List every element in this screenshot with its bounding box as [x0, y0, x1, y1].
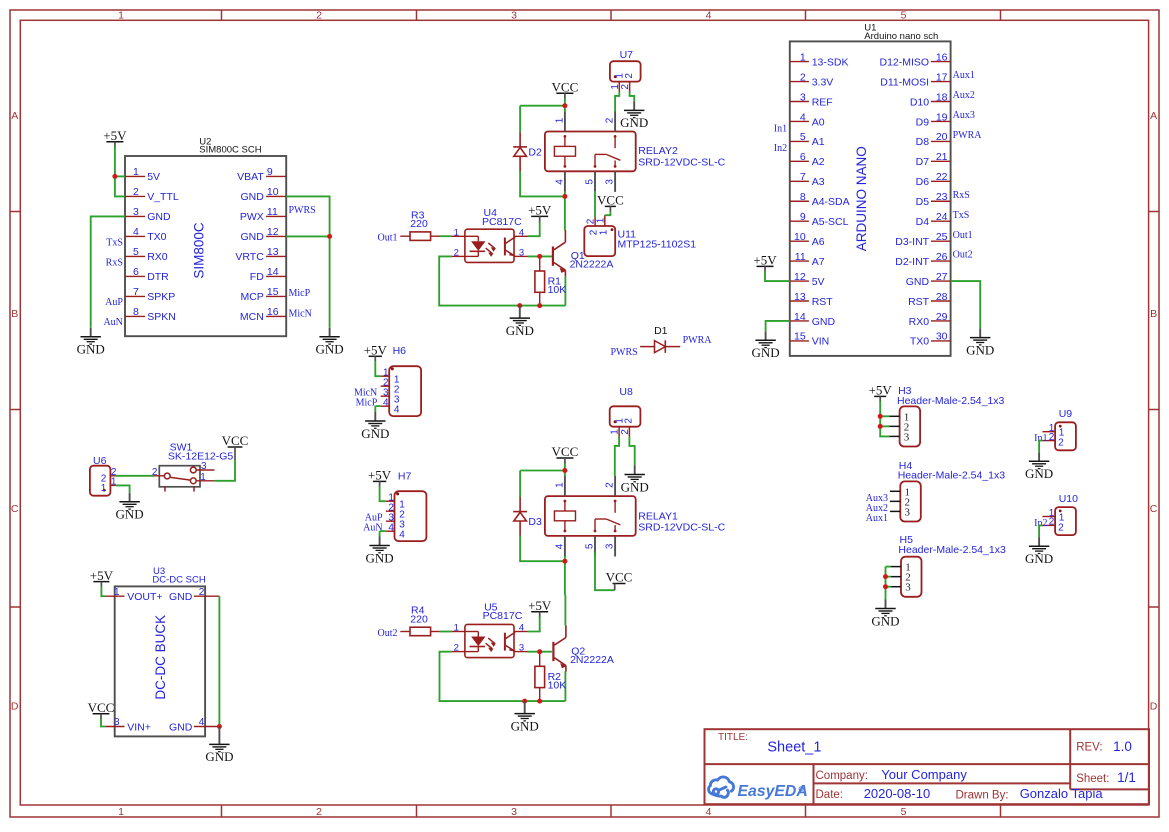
svg-text:2N2222A: 2N2222A: [570, 654, 614, 666]
svg-text:GND: GND: [316, 342, 344, 357]
svg-text:MTP125-1102S1: MTP125-1102S1: [618, 238, 697, 250]
svg-text:AuP: AuP: [105, 297, 123, 308]
svg-text:GND: GND: [205, 749, 233, 764]
svg-text:13-SDK: 13-SDK: [812, 56, 849, 68]
svg-text:In1: In1: [774, 123, 787, 134]
svg-text:1: 1: [118, 806, 124, 818]
svg-text:GND: GND: [511, 718, 539, 733]
svg-text:3: 3: [201, 461, 207, 472]
svg-text:2: 2: [199, 587, 205, 598]
svg-text:2: 2: [1058, 523, 1064, 534]
svg-text:D5: D5: [916, 196, 930, 208]
svg-text:RST: RST: [908, 296, 930, 308]
svg-text:20: 20: [936, 131, 948, 143]
svg-text:Aux2: Aux2: [953, 90, 975, 101]
svg-text:3: 3: [133, 206, 139, 218]
svg-text:23: 23: [936, 191, 948, 203]
svg-text:SIM800C: SIM800C: [191, 222, 206, 279]
svg-text:Header-Male-2.54_1x3: Header-Male-2.54_1x3: [898, 544, 1006, 556]
svg-text:GND: GND: [1025, 551, 1053, 566]
svg-text:D3-INT: D3-INT: [895, 236, 929, 248]
svg-text:16: 16: [936, 51, 948, 63]
svg-text:220: 220: [410, 613, 428, 625]
svg-text:GND: GND: [871, 613, 899, 628]
svg-text:A2: A2: [812, 156, 825, 168]
svg-text:25: 25: [936, 231, 948, 243]
svg-text:2: 2: [624, 73, 635, 79]
svg-text:RX0: RX0: [147, 251, 168, 263]
svg-text:10K: 10K: [548, 284, 567, 296]
svg-text:Sheet_1: Sheet_1: [767, 740, 821, 756]
svg-text:12: 12: [267, 226, 279, 238]
svg-text:27: 27: [936, 271, 948, 283]
svg-text:3: 3: [905, 506, 911, 518]
svg-text:VIN+: VIN+: [127, 721, 151, 733]
svg-text:9: 9: [800, 211, 806, 223]
svg-text:13: 13: [794, 291, 806, 303]
svg-text:+5V: +5V: [528, 203, 552, 218]
svg-text:+5V: +5V: [528, 598, 552, 613]
svg-text:2: 2: [624, 418, 635, 424]
svg-text:D7: D7: [916, 156, 930, 168]
svg-text:8: 8: [800, 191, 806, 203]
svg-text:VOUT+: VOUT+: [127, 591, 162, 603]
svg-text:RST: RST: [812, 296, 834, 308]
svg-text:GND: GND: [240, 191, 264, 203]
svg-text:13: 13: [267, 246, 279, 258]
svg-text:2: 2: [454, 643, 459, 654]
svg-text:3: 3: [904, 431, 910, 443]
svg-text:EasyEDA: EasyEDA: [738, 783, 808, 800]
svg-text:1: 1: [800, 51, 806, 63]
svg-text:2: 2: [1049, 517, 1055, 528]
svg-text:VCC: VCC: [552, 79, 579, 94]
svg-text:GND: GND: [506, 323, 534, 338]
svg-text:5: 5: [133, 246, 139, 258]
svg-text:12: 12: [794, 271, 806, 283]
svg-text:4: 4: [199, 717, 205, 728]
svg-text:5: 5: [800, 131, 806, 143]
svg-text:3: 3: [519, 643, 524, 654]
svg-text:D4: D4: [916, 216, 930, 228]
svg-text:DC-DC SCH: DC-DC SCH: [152, 575, 205, 586]
svg-text:GND: GND: [77, 342, 105, 357]
svg-text:4: 4: [133, 226, 139, 238]
svg-text:4: 4: [519, 623, 524, 634]
svg-text:Header-Male-2.54_1x3: Header-Male-2.54_1x3: [898, 469, 1006, 481]
svg-text:D11-MOSI: D11-MOSI: [880, 76, 929, 88]
svg-text:26: 26: [936, 251, 948, 263]
svg-text:6: 6: [133, 266, 139, 278]
svg-text:D8: D8: [916, 136, 930, 148]
svg-text:In1: In1: [1034, 433, 1047, 444]
svg-text:+5V: +5V: [90, 568, 114, 583]
svg-text:TxS: TxS: [106, 237, 123, 248]
svg-text:1: 1: [595, 217, 606, 223]
svg-text:U9: U9: [1059, 408, 1073, 420]
svg-text:A: A: [1150, 110, 1157, 122]
svg-text:1: 1: [133, 166, 139, 178]
svg-text:D1: D1: [654, 325, 668, 337]
svg-text:D10: D10: [910, 96, 929, 108]
svg-text:Out1: Out1: [378, 233, 398, 244]
svg-text:PC817C: PC817C: [482, 216, 522, 228]
svg-text:1: 1: [200, 472, 206, 483]
svg-text:MicP: MicP: [289, 288, 311, 299]
svg-text:+5V: +5V: [869, 383, 893, 398]
svg-text:2: 2: [620, 429, 631, 435]
svg-text:D12-MISO: D12-MISO: [880, 56, 930, 68]
svg-text:C: C: [11, 503, 19, 515]
svg-text:MicN: MicN: [289, 309, 312, 320]
svg-text:24: 24: [936, 211, 948, 223]
svg-text:1: 1: [554, 482, 565, 488]
svg-text:B: B: [11, 308, 18, 320]
svg-text:SPKP: SPKP: [147, 291, 175, 303]
svg-text:2: 2: [605, 117, 616, 123]
svg-text:2: 2: [1058, 438, 1064, 449]
svg-text:5: 5: [584, 543, 595, 549]
svg-text:TX0: TX0: [147, 231, 166, 243]
svg-text:Header-Male-2.54_1x3: Header-Male-2.54_1x3: [897, 395, 1005, 407]
svg-text:U10: U10: [1059, 493, 1078, 505]
svg-text:D9: D9: [916, 116, 930, 128]
svg-text:PWRA: PWRA: [953, 130, 983, 141]
svg-text:2: 2: [1049, 432, 1055, 443]
svg-text:4: 4: [706, 9, 712, 21]
svg-text:Date:: Date:: [816, 789, 844, 801]
svg-text:10: 10: [267, 186, 279, 198]
svg-text:11: 11: [795, 251, 806, 263]
svg-text:TX0: TX0: [910, 336, 929, 348]
svg-text:SRD-12VDC-SL-C: SRD-12VDC-SL-C: [638, 156, 725, 168]
svg-text:A0: A0: [812, 116, 825, 128]
svg-text:A: A: [11, 110, 18, 122]
svg-text:PC817C: PC817C: [483, 610, 523, 622]
svg-text:1: 1: [454, 623, 459, 634]
svg-text:21: 21: [936, 151, 948, 163]
svg-text:A7: A7: [812, 256, 825, 268]
svg-text:D2: D2: [528, 146, 542, 158]
svg-text:19: 19: [936, 111, 948, 123]
svg-text:GND: GND: [1025, 466, 1053, 481]
svg-text:Aux3: Aux3: [953, 110, 975, 121]
svg-text:3: 3: [800, 91, 806, 103]
svg-text:3: 3: [905, 582, 911, 594]
svg-text:2N2222A: 2N2222A: [570, 259, 614, 271]
svg-text:D6: D6: [916, 176, 930, 188]
svg-text:Aux1: Aux1: [866, 513, 888, 524]
svg-text:4: 4: [706, 806, 712, 818]
svg-text:16: 16: [267, 306, 279, 318]
svg-text:Out2: Out2: [378, 628, 398, 639]
svg-text:22: 22: [936, 171, 948, 183]
svg-text:2: 2: [152, 467, 158, 478]
svg-text:5V: 5V: [812, 276, 825, 288]
svg-text:GND: GND: [169, 721, 193, 733]
svg-text:A6: A6: [812, 236, 825, 248]
svg-text:AuN: AuN: [103, 317, 122, 328]
svg-text:SPKN: SPKN: [147, 311, 176, 323]
svg-text:REV:: REV:: [1076, 742, 1102, 754]
svg-text:+5V: +5V: [103, 128, 127, 143]
svg-text:In2: In2: [774, 143, 787, 154]
svg-text:C: C: [1150, 503, 1158, 515]
svg-text:D3: D3: [528, 516, 542, 528]
svg-text:4: 4: [388, 522, 394, 533]
svg-text:15: 15: [794, 331, 806, 343]
svg-text:V_TTL: V_TTL: [147, 191, 179, 203]
svg-text:5: 5: [901, 806, 907, 818]
svg-text:VBAT: VBAT: [237, 171, 264, 183]
svg-text:1: 1: [118, 9, 124, 21]
svg-text:FD: FD: [250, 271, 264, 283]
svg-text:PWX: PWX: [240, 211, 264, 223]
svg-text:29: 29: [936, 311, 948, 323]
svg-text:11: 11: [267, 206, 278, 218]
svg-text:PWRA: PWRA: [683, 335, 713, 346]
svg-text:DC-DC BUCK: DC-DC BUCK: [153, 615, 168, 700]
svg-text:MCP: MCP: [240, 291, 263, 303]
svg-text:4: 4: [394, 404, 400, 415]
svg-text:GND: GND: [169, 591, 193, 603]
svg-text:VCC: VCC: [552, 444, 579, 459]
svg-text:GND: GND: [621, 479, 649, 494]
svg-text:10K: 10K: [548, 680, 567, 692]
svg-text:SRD-12VDC-SL-C: SRD-12VDC-SL-C: [638, 522, 725, 534]
svg-text:VCC: VCC: [597, 193, 624, 208]
svg-text:2: 2: [316, 806, 322, 818]
svg-text:10: 10: [794, 231, 806, 243]
svg-text:3: 3: [519, 247, 524, 258]
svg-text:GND: GND: [812, 316, 836, 328]
svg-text:3: 3: [511, 9, 517, 21]
svg-text:18: 18: [936, 91, 948, 103]
svg-text:4: 4: [554, 179, 565, 185]
svg-text:D2-INT: D2-INT: [895, 256, 929, 268]
svg-text:4: 4: [399, 529, 405, 540]
svg-text:1: 1: [599, 229, 610, 235]
svg-text:3: 3: [605, 543, 616, 549]
svg-text:GND: GND: [147, 211, 171, 223]
svg-text:1.0: 1.0: [1113, 739, 1132, 754]
svg-text:+5V: +5V: [364, 343, 388, 358]
svg-text:VCC: VCC: [88, 700, 115, 715]
svg-text:TxS: TxS: [953, 210, 970, 221]
svg-text:RELAY2: RELAY2: [638, 145, 678, 157]
svg-text:220: 220: [410, 218, 428, 230]
svg-text:RX0: RX0: [909, 316, 930, 328]
svg-text:Sheet:: Sheet:: [1076, 773, 1109, 785]
svg-text:2: 2: [133, 186, 139, 198]
svg-text:A3: A3: [812, 176, 825, 188]
svg-text:A5-SCL: A5-SCL: [812, 216, 849, 228]
svg-text:1: 1: [454, 227, 459, 238]
svg-text:GND: GND: [116, 507, 144, 522]
svg-text:TITLE:: TITLE:: [718, 732, 748, 743]
svg-text:1: 1: [554, 117, 565, 123]
svg-text:6: 6: [800, 151, 806, 163]
svg-text:GND: GND: [906, 276, 930, 288]
svg-text:VIN: VIN: [812, 336, 830, 348]
svg-text:Out1: Out1: [953, 230, 973, 241]
svg-text:28: 28: [936, 291, 948, 303]
svg-text:PWRS: PWRS: [289, 205, 316, 216]
svg-text:8: 8: [133, 306, 139, 318]
svg-text:GND: GND: [620, 115, 648, 130]
svg-text:RELAY1: RELAY1: [638, 510, 678, 522]
svg-text:Out2: Out2: [953, 250, 973, 261]
svg-text:VCC: VCC: [606, 570, 633, 585]
svg-text:4: 4: [519, 227, 524, 238]
svg-text:Drawn By:: Drawn By:: [956, 789, 1009, 801]
svg-text:In2: In2: [1034, 518, 1047, 529]
svg-text:14: 14: [794, 311, 806, 323]
svg-text:7: 7: [133, 286, 139, 298]
svg-text:1: 1: [114, 587, 120, 598]
svg-text:U6: U6: [93, 455, 107, 467]
svg-text:GND: GND: [361, 426, 389, 441]
svg-text:Aux1: Aux1: [953, 70, 975, 81]
svg-text:VRTC: VRTC: [235, 251, 264, 263]
svg-text:5V: 5V: [147, 171, 160, 183]
svg-text:15: 15: [267, 286, 279, 298]
svg-text:GND: GND: [240, 231, 264, 243]
svg-text:4: 4: [554, 543, 565, 549]
svg-text:9: 9: [267, 166, 273, 178]
svg-text:U7: U7: [620, 49, 634, 61]
svg-text:VCC: VCC: [222, 433, 249, 448]
svg-text:DTR: DTR: [147, 271, 169, 283]
svg-text:PWRS: PWRS: [610, 347, 637, 358]
svg-text:GND: GND: [752, 345, 780, 360]
svg-text:RxS: RxS: [953, 190, 970, 201]
svg-text:3: 3: [114, 717, 120, 728]
svg-text:2: 2: [605, 482, 616, 488]
svg-text:B: B: [1150, 308, 1157, 320]
svg-text:+5V: +5V: [368, 468, 392, 483]
svg-text:2020-08-10: 2020-08-10: [864, 786, 931, 801]
svg-text:2: 2: [620, 84, 631, 90]
svg-text:5: 5: [901, 9, 907, 21]
svg-text:14: 14: [267, 266, 279, 278]
svg-text:17: 17: [936, 71, 948, 83]
svg-text:Arduino nano sch: Arduino nano sch: [864, 31, 938, 42]
svg-text:Your Company: Your Company: [881, 767, 967, 782]
svg-text:SIM800C SCH: SIM800C SCH: [199, 145, 261, 156]
svg-text:4: 4: [800, 111, 806, 123]
svg-text:H6: H6: [393, 345, 407, 357]
svg-text:5: 5: [584, 179, 595, 185]
svg-text:D: D: [11, 701, 19, 713]
svg-text:U8: U8: [619, 386, 633, 398]
svg-text:RxS: RxS: [106, 257, 123, 268]
svg-text:1/1: 1/1: [1117, 770, 1136, 785]
svg-text:D: D: [1150, 701, 1158, 713]
svg-text:A4-SDA: A4-SDA: [812, 196, 850, 208]
svg-text:A1: A1: [812, 136, 825, 148]
svg-text:1: 1: [101, 483, 107, 494]
svg-text:30: 30: [936, 331, 948, 343]
svg-text:H7: H7: [398, 470, 412, 482]
svg-text:ARDUINO NANO: ARDUINO NANO: [854, 146, 869, 251]
svg-text:2: 2: [454, 247, 459, 258]
svg-text:4: 4: [383, 397, 389, 408]
svg-text:MCN: MCN: [240, 311, 264, 323]
svg-text:GND: GND: [366, 550, 394, 565]
svg-text:REF: REF: [812, 96, 833, 108]
svg-text:3: 3: [605, 179, 616, 185]
svg-text:2: 2: [800, 71, 806, 83]
svg-text:7: 7: [800, 171, 806, 183]
svg-text:GND: GND: [966, 342, 994, 357]
svg-text:2: 2: [316, 9, 322, 21]
svg-text:3: 3: [511, 806, 517, 818]
svg-text:3.3V: 3.3V: [812, 76, 834, 88]
svg-text:Gonzalo Tapia: Gonzalo Tapia: [1020, 786, 1104, 801]
svg-text:+5V: +5V: [753, 253, 777, 268]
svg-text:Company:: Company:: [816, 770, 868, 782]
